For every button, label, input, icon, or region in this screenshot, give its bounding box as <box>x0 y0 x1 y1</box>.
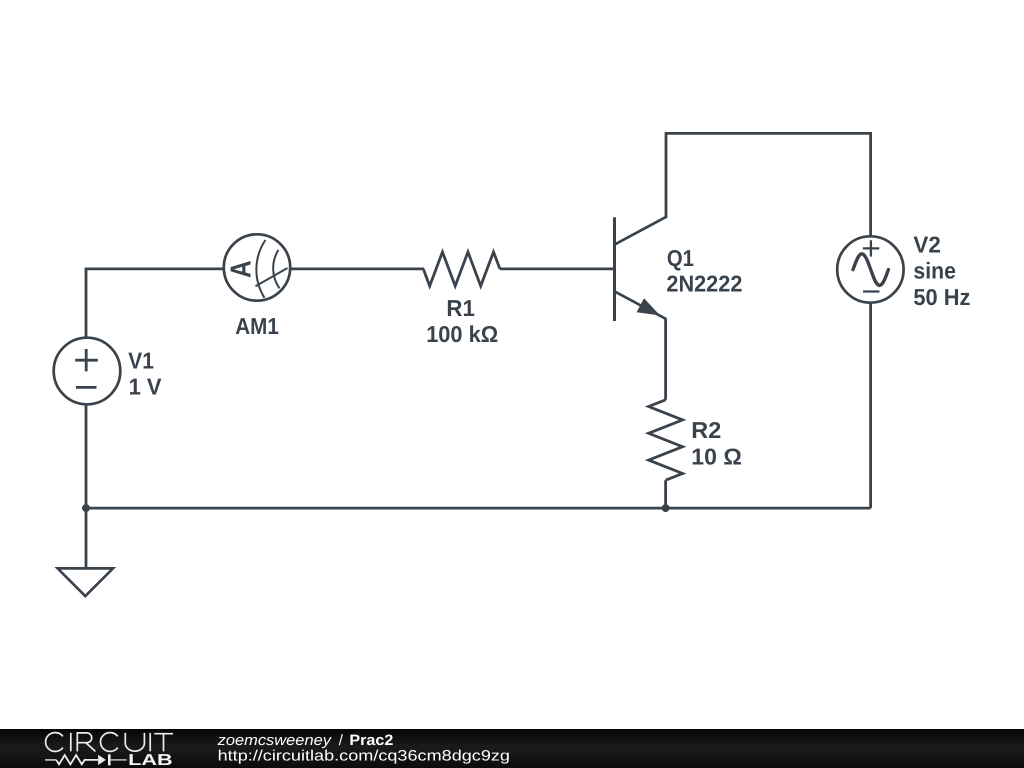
svg-text:LAB: LAB <box>128 752 173 768</box>
svg-text:Q1: Q1 <box>667 245 694 271</box>
svg-text:V1: V1 <box>128 347 154 373</box>
junction dot at V1 bottom rail <box>82 504 90 512</box>
svg-text:50 Hz: 50 Hz <box>913 284 970 310</box>
transistor Q1 <box>615 217 667 321</box>
voltage source V2 <box>837 236 903 302</box>
svg-text:R1: R1 <box>446 295 475 321</box>
ammeter AM1 <box>224 234 290 300</box>
wire V1 top to node A to ammeter AM1 to resistor R1 <box>86 269 424 342</box>
svg-text:10 Ω: 10 Ω <box>691 443 742 469</box>
svg-text:http://circuitlab.com/cq36cm8d: http://circuitlab.com/cq36cm8dgc9zg <box>218 748 510 765</box>
wire Q1 collector to top rail to V2 to bottom rail <box>666 133 871 508</box>
wire Q1 emitter to resistor R2 <box>664 319 667 400</box>
resistor R1 <box>423 252 500 286</box>
svg-text:100 kΩ: 100 kΩ <box>426 321 498 347</box>
wire V1 bottom to ground <box>85 400 88 568</box>
CircuitLab logo resistor-diode line and LAB <box>45 754 127 765</box>
wire R2 to bottom rail <box>664 480 667 508</box>
bottom rail wire <box>86 507 871 510</box>
wire R1 to Q1 base <box>500 267 613 270</box>
svg-text:A: A <box>226 260 258 278</box>
footer bar <box>0 729 1024 768</box>
svg-text:Prac2: Prac2 <box>349 732 393 749</box>
ground <box>58 568 113 596</box>
svg-text:R2: R2 <box>691 417 721 443</box>
CircuitLab logo CIRCUIT <box>46 733 173 752</box>
svg-text:zoemcsweeney: zoemcsweeney <box>217 732 333 749</box>
svg-text:2N2222: 2N2222 <box>666 271 742 297</box>
svg-text:sine: sine <box>913 257 956 283</box>
junction dot at R2 bottom rail <box>662 504 670 512</box>
resistor R2 <box>649 400 683 480</box>
svg-text:V2: V2 <box>913 232 941 258</box>
svg-text:AM1: AM1 <box>235 313 279 339</box>
svg-text:1 V: 1 V <box>129 373 163 399</box>
voltage source V1 <box>54 338 121 405</box>
